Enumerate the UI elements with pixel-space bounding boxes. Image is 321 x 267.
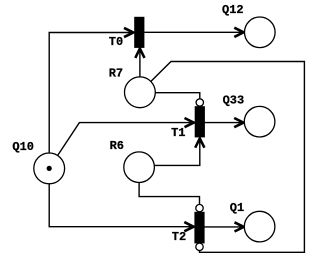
arrowhead into Q33 [234, 118, 243, 127]
svg-text:Q12: Q12 [222, 3, 244, 17]
wire T2 right to Q1 [205, 226, 245, 228]
place Q33 [244, 106, 275, 137]
svg-text:Q10: Q10 [12, 140, 34, 154]
svg-text:Q33: Q33 [223, 94, 245, 108]
wire Q10 top to T0 left [49, 33, 133, 154]
token in Q10 [47, 166, 52, 171]
wire R6 bottom to T2 top circle [139, 182, 199, 204]
wire Q10 bottom to T2 left [49, 184, 194, 227]
arrowhead into T1 bottom [195, 138, 204, 147]
arrowhead into Q1 [235, 222, 244, 231]
svg-text:R7: R7 [109, 66, 123, 80]
inhibitor circle on T1 top [196, 99, 203, 106]
svg-text:T1: T1 [171, 126, 185, 140]
svg-text:T0: T0 [109, 35, 123, 49]
wire R7 feedback to T2 bottom circle [151, 62, 305, 253]
wire R6 right to T1 bottom [154, 138, 200, 165]
arrowhead into T2 left [184, 222, 193, 231]
inhibitor circle on T2 top [196, 204, 203, 211]
transition T2 [194, 212, 204, 244]
place Q1 [244, 211, 275, 242]
transition T0 [134, 17, 144, 48]
wire Q10 diagonal to T1 left [58, 123, 194, 156]
svg-text:Q1: Q1 [230, 201, 244, 215]
wire T1 right to Q33 [205, 122, 244, 124]
wire R7 to T0 bottom [139, 48, 141, 76]
arrowhead into T0 bottom [135, 49, 144, 58]
inhibitor circle on T2 bottom [196, 243, 203, 250]
arrowhead into Q12 [234, 28, 243, 37]
place R6 [124, 152, 155, 183]
transition T1 [195, 106, 205, 137]
place R7 [124, 77, 155, 108]
place Q12 [244, 17, 275, 48]
place Q10 [34, 153, 65, 184]
wire R7 right to T1 top circle [155, 93, 200, 99]
arrowhead into T1 left [185, 118, 194, 127]
svg-text:T2: T2 [172, 230, 186, 244]
arrowhead into T0 left [124, 28, 133, 37]
svg-text:R6: R6 [110, 139, 124, 153]
wire T0 right to Q12 [144, 31, 243, 33]
